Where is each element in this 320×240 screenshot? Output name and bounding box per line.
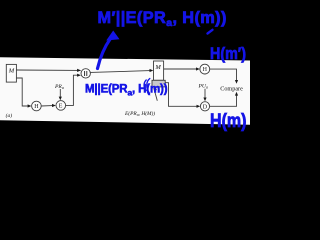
white slide area [0, 57, 250, 125]
box M dest [154, 61, 164, 80]
svg-text:M: M [154, 64, 161, 71]
wire concat to dest box [90, 71, 150, 73]
gray signature box [152, 80, 165, 87]
wire E up to concat [66, 75, 78, 105]
arrowhead leader into gray box [153, 88, 157, 92]
arrowhead PRa into E [59, 97, 62, 101]
svg-text:M||E(PRa, H(m)): M||E(PRa, H(m)) [85, 84, 168, 98]
arrowhead into E source [52, 104, 56, 107]
blue arrow shaft [98, 39, 111, 69]
svg-text:H(m): H(m) [210, 111, 247, 132]
svg-text:Compare: Compare [220, 85, 243, 92]
svg-text:(a): (a) [6, 112, 13, 119]
circle H dest [200, 64, 210, 74]
arrowhead into dest box [150, 69, 154, 72]
circle concat [81, 69, 90, 78]
arrowhead into H dest [196, 67, 200, 70]
wire PUa to D [204, 89, 206, 98]
wire M down to H [16, 78, 28, 106]
svg-text:H(m′): H(m′) [210, 45, 246, 63]
box M source [6, 64, 16, 82]
circle E source [56, 101, 66, 111]
wire M to concat (top) [16, 69, 80, 71]
circle H source [32, 101, 42, 111]
circle D dest [200, 102, 209, 111]
svg-text:PRa: PRa [54, 84, 64, 90]
arrowhead into compare bottom [235, 92, 238, 96]
blue dash [208, 30, 213, 34]
arrowhead into concat top [77, 69, 81, 72]
wire D to compare [210, 95, 237, 106]
svg-text:H: H [34, 104, 39, 110]
svg-text:E: E [59, 104, 63, 110]
svg-text:M′||E(PRa, H(m)): M′||E(PRa, H(m)) [98, 9, 227, 29]
arrowhead PUa into D [203, 98, 206, 102]
wire PRa to E [59, 89, 61, 97]
leader line to signature box [155, 91, 158, 101]
wire H to compare [210, 69, 237, 81]
svg-text:E(PRa, H(M)): E(PRa, H(M)) [124, 110, 155, 117]
arrowhead into D [197, 105, 201, 108]
wire gray box to D [165, 83, 197, 107]
blue arrowhead [106, 31, 119, 41]
arrowhead into compare top [235, 80, 238, 84]
svg-text:D: D [203, 104, 208, 110]
arrowhead into concat bottom [77, 74, 81, 77]
svg-text:M: M [8, 67, 15, 74]
wire H to E [41, 105, 52, 107]
svg-text:H: H [203, 67, 208, 73]
svg-text:PUa: PUa [198, 84, 208, 90]
blue arcs around signature box [144, 79, 150, 94]
concat bars [85, 71, 87, 76]
wire dest box to H [164, 68, 197, 70]
arrowhead into H source [28, 104, 32, 107]
